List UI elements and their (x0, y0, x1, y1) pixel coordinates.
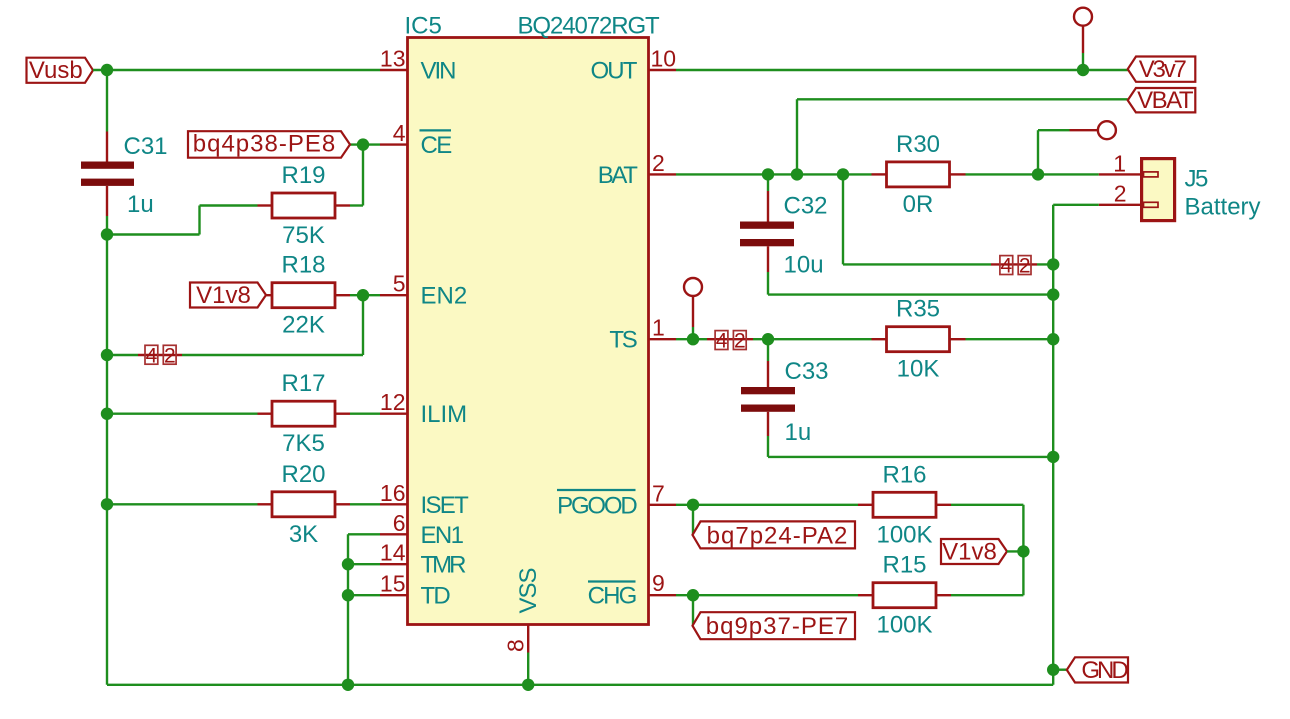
svg-text:VSS: VSS (515, 568, 542, 613)
svg-text:10u: 10u (784, 252, 824, 279)
svg-text:bq9p37-PE7: bq9p37-PE7 (706, 613, 849, 640)
svg-text:CHG: CHG (588, 583, 636, 610)
net flag 4 2 mid (1000, 255, 1031, 278)
svg-text:R19: R19 (281, 162, 325, 189)
wire 42 mid net (843, 174, 1053, 264)
svg-text:14: 14 (380, 540, 406, 566)
resistor R19 (258, 193, 351, 218)
svg-text:J5: J5 (1185, 166, 1209, 193)
junction BAT VBAT (791, 168, 803, 180)
junction TD (342, 589, 354, 601)
wire V1v8 to node (1007, 550, 1023, 552)
flag V1v8 left (190, 282, 266, 309)
svg-text:8: 8 (503, 639, 529, 652)
resistor R18 (266, 283, 350, 308)
pin 12 ILIM stub (380, 413, 408, 415)
wire VBAT net (797, 99, 1128, 174)
wire PGOOD label drop (692, 505, 694, 535)
svg-text:7K5: 7K5 (282, 430, 325, 457)
svg-text:3K: 3K (289, 521, 318, 548)
pin 4 CE stub (380, 143, 408, 145)
wire CHG net (676, 594, 858, 596)
junction C31 bottom (101, 228, 113, 240)
wire ground bus bottom (107, 684, 1053, 686)
svg-text:C33: C33 (785, 358, 829, 385)
svg-text:4: 4 (146, 344, 158, 367)
wire R19 lower approach (107, 206, 258, 235)
svg-text:13: 13 (380, 46, 406, 72)
svg-text:EN2: EN2 (421, 283, 468, 310)
junction ISET row (101, 498, 113, 510)
wire PGOOD net (676, 504, 858, 506)
flag V3v7 (1128, 56, 1196, 83)
wire BAT net (676, 173, 1099, 175)
wire ILIM row (107, 413, 258, 415)
svg-text:R30: R30 (896, 131, 940, 158)
pin 2 BAT stub (649, 173, 677, 175)
resistor R17 (258, 401, 351, 426)
svg-text:EN1: EN1 (421, 522, 464, 549)
svg-text:4: 4 (1001, 255, 1013, 278)
wire testpoint2 to BAT (1038, 130, 1070, 174)
svg-text:100K: 100K (876, 612, 932, 639)
svg-text:4: 4 (716, 330, 728, 353)
pin name PGOOD with overline (557, 490, 637, 519)
junction bus R35 (1047, 333, 1059, 345)
pin 8 VSS stub (527, 624, 529, 653)
svg-text:9: 9 (652, 570, 665, 596)
svg-text:4: 4 (393, 120, 406, 146)
junction ILIM row (101, 408, 113, 420)
junction CHG label (687, 589, 699, 601)
svg-text:R17: R17 (281, 370, 325, 397)
svg-text:OUT: OUT (591, 58, 638, 85)
svg-text:TMR: TMR (421, 552, 467, 579)
junction TS C33 (762, 333, 774, 345)
pin 15 TD stub (380, 594, 408, 596)
pin lead J5 pin2 (1099, 204, 1142, 206)
junction VSS ground (522, 679, 534, 691)
junction bus C32 (1047, 288, 1059, 300)
svg-text:7: 7 (652, 480, 665, 506)
wire R19 to CE (350, 145, 380, 206)
capacitor C33 (741, 339, 795, 457)
resistor R15 (858, 583, 951, 608)
svg-text:V3v7: V3v7 (1139, 56, 1187, 83)
pin name CE with overline (420, 130, 452, 159)
svg-text:V1v8: V1v8 (196, 282, 251, 309)
svg-text:ISET: ISET (421, 492, 470, 519)
flag VBAT (1128, 87, 1196, 114)
pin 16 ISET stub (380, 503, 408, 505)
wire GND stub (1053, 669, 1067, 671)
svg-text:1: 1 (1113, 150, 1126, 176)
junction bus 42 (1047, 258, 1059, 270)
wire R16 to V1v8 (951, 505, 1023, 595)
pin 14 TMR stub (380, 563, 408, 565)
capacitor C32 (740, 174, 794, 294)
pin 5 EN2 stub (380, 294, 408, 296)
wire C32 bottom to bus (768, 293, 1053, 295)
svg-text:R20: R20 (281, 461, 325, 488)
flag GND (1067, 657, 1129, 684)
test point circle TS (684, 278, 702, 339)
resistor R16 (858, 492, 951, 517)
wire Vusb to VIN (93, 69, 380, 71)
flag bq9p37-PE7 (693, 612, 856, 640)
connector J5 (1142, 159, 1175, 221)
junction TS testpoint (687, 333, 699, 345)
pin 10 OUT stub (649, 69, 677, 71)
pin 1 TS stub (649, 338, 677, 340)
net flag 4 2 left (145, 344, 176, 367)
svg-text:1u: 1u (127, 191, 154, 218)
svg-text:15: 15 (380, 571, 406, 597)
junction BAT testpoint (1032, 168, 1044, 180)
wire R20 to ISET (350, 503, 380, 505)
svg-text:1: 1 (652, 315, 665, 341)
junction bus C33 (1047, 451, 1059, 463)
pin 9 CHG stub (649, 594, 677, 596)
pin lead J5 pin1 (1099, 173, 1142, 175)
svg-text:Battery: Battery (1185, 194, 1261, 221)
junction PGOOD label (687, 499, 699, 511)
svg-text:10: 10 (651, 46, 677, 72)
svg-text:VIN: VIN (421, 58, 456, 85)
svg-text:2: 2 (652, 150, 665, 176)
flag bq7p24-PA2 (693, 521, 856, 549)
pin 6 EN1 stub (380, 533, 408, 535)
svg-text:V1v8: V1v8 (942, 538, 997, 565)
wire R18 to EN2 (350, 294, 380, 296)
test point circle top (1074, 8, 1092, 70)
svg-text:75K: 75K (282, 222, 325, 249)
svg-text:ILIM: ILIM (421, 401, 468, 428)
svg-text:12: 12 (380, 389, 406, 415)
svg-text:TD: TD (421, 583, 451, 610)
svg-text:5: 5 (393, 271, 406, 297)
wire pin8 to ground bus (527, 653, 529, 685)
svg-text:BAT: BAT (598, 162, 638, 189)
svg-text:R18: R18 (281, 252, 325, 279)
junction Vusb node (101, 64, 113, 76)
svg-text:100K: 100K (876, 521, 932, 548)
junction EN2 node (357, 289, 369, 301)
wire R17 to ILIM (350, 413, 380, 415)
wire ISET row (107, 503, 258, 505)
svg-text:0R: 0R (903, 191, 934, 218)
resistor R20 (258, 492, 351, 517)
svg-text:PGOOD: PGOOD (557, 492, 637, 519)
svg-text:R16: R16 (882, 461, 926, 488)
svg-text:6: 6 (393, 510, 406, 536)
svg-text:R15: R15 (882, 552, 926, 579)
wire 42 row left (107, 295, 363, 355)
svg-text:C32: C32 (784, 193, 828, 220)
junction TMR (342, 558, 354, 570)
junction BAT 42 (837, 168, 849, 180)
junction bus GND (1047, 664, 1059, 676)
wire OUT net (676, 69, 1130, 71)
wire R35 to bus (966, 338, 1054, 340)
wire TS net (676, 338, 872, 340)
svg-text:2: 2 (1019, 255, 1031, 278)
junction 42 row (101, 349, 113, 361)
svg-text:VBAT: VBAT (1137, 87, 1194, 114)
svg-text:16: 16 (380, 480, 406, 506)
svg-text:2: 2 (734, 330, 746, 353)
svg-text:2: 2 (1114, 181, 1127, 207)
wire left GND bus lower (106, 216, 108, 685)
test point circle 2 (1070, 121, 1116, 139)
svg-text:bq7p24-PA2: bq7p24-PA2 (707, 522, 849, 549)
wire R15 to V1v8 riser (951, 594, 1023, 596)
svg-text:22K: 22K (282, 312, 325, 339)
svg-text:Vusb: Vusb (29, 57, 83, 84)
wire left GND bus upper (106, 70, 108, 132)
junction CE node (357, 138, 369, 150)
junction BAT C32 (762, 168, 774, 180)
pin 7 PGOOD stub (649, 504, 677, 506)
svg-text:TS: TS (609, 327, 636, 354)
svg-text:GND: GND (1081, 657, 1128, 684)
svg-text:IC5: IC5 (405, 12, 442, 39)
svg-text:R35: R35 (896, 296, 940, 323)
flag bq4p38-PE8 (188, 131, 350, 158)
capacitor C31 (81, 132, 134, 217)
wire EN1/TMR/TD tie (348, 534, 380, 685)
svg-text:CE: CE (421, 132, 452, 159)
resistor R30 (872, 162, 966, 187)
svg-text:BQ24072RGT: BQ24072RGT (518, 13, 661, 40)
svg-text:10K: 10K (897, 356, 940, 383)
wire J5 pin2 to bus (1053, 205, 1099, 685)
op-amp U1 body: IC5 BQ24072RGT charger IC (408, 38, 649, 625)
svg-text:1u: 1u (785, 419, 812, 446)
flag V1v8 right (941, 538, 1007, 565)
svg-text:2: 2 (164, 344, 176, 367)
net flag 4 2 TS (715, 330, 746, 353)
wire CHG label drop (692, 595, 694, 626)
flag Vusb (27, 57, 94, 84)
pin name CHG with overline (588, 582, 636, 610)
svg-text:bq4p38-PE8: bq4p38-PE8 (193, 131, 336, 158)
wire C33 bottom to bus (768, 456, 1053, 458)
junction V1v8 node (1017, 545, 1029, 557)
svg-text:C31: C31 (124, 133, 168, 160)
pin 13 VIN stub (380, 69, 408, 71)
resistor R35 (872, 327, 966, 352)
junction EN1 ground (342, 679, 354, 691)
junction OUT node (1077, 64, 1089, 76)
